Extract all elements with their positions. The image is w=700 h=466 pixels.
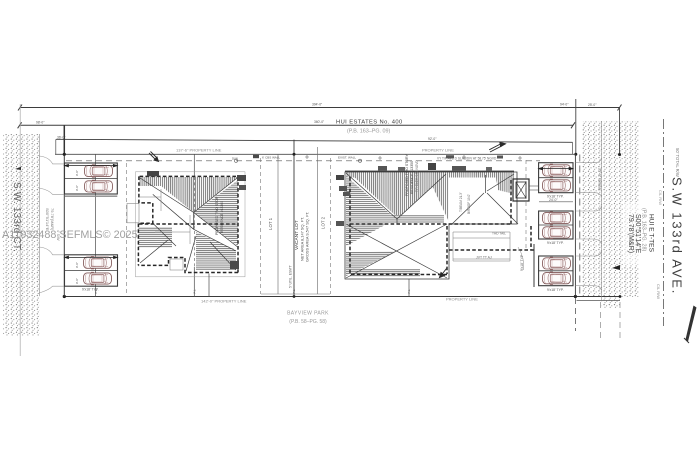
building 2 roof hatch west face upper [346, 176, 396, 246]
lot line extensions below plan [574, 298, 576, 331]
svg-text:EXIST. WALL: EXIST. WALL [338, 156, 356, 160]
south property line [64, 296, 575, 298]
svg-text:HUI ESTATES No. 400: HUI ESTATES No. 400 [336, 119, 403, 125]
setback dashed east of building 2 [525, 160, 527, 248]
svg-text:5' UTIL. ESM'T: 5' UTIL. ESM'T [289, 265, 293, 288]
street swale stipple right (S.W. 133rd AVE) [582, 121, 639, 297]
svg-text:98'-0": 98'-0" [36, 121, 45, 125]
building 2 roof hatch west face lower [346, 251, 397, 276]
dim extension vertical x=576 [575, 99, 577, 154]
building 1 hip diagonal SW [153, 223, 176, 246]
building 1 entry porch north [147, 171, 159, 177]
building 1 interior partition lines [139, 189, 190, 270]
svg-text:94'-0": 94'-0" [560, 103, 569, 107]
svg-text:360'-0": 360'-0" [314, 120, 325, 124]
parking group right 2: car 1 [543, 212, 571, 224]
parking group left top: stall dim arrow [65, 164, 118, 167]
parking group left top: stall box [65, 163, 118, 196]
building 1 equipment pads east [237, 175, 246, 181]
street west curb line (right street) [601, 121, 603, 300]
parking enclosure west wall right [533, 244, 535, 287]
building 2 hip diagonal NW [346, 173, 397, 219]
building 2 east gable hips [452, 193, 484, 224]
building 2 rear terrace lines [453, 232, 510, 261]
dimension line B [18, 122, 575, 128]
flow arrow near building 1 NW [149, 152, 159, 162]
svg-text:B/ROOF 19.0': B/ROOF 19.0' [467, 194, 471, 214]
building 2 dark label marks along top [378, 166, 387, 171]
building 1 unit split dashed [193, 177, 195, 272]
svg-text:P.L.: P.L. [407, 289, 411, 294]
svg-text:PROPERTY LINE: PROPERTY LINE [422, 148, 454, 153]
svg-text:D/W: D/W [232, 157, 238, 161]
middle strip bottom line [261, 293, 330, 295]
flow arrow near building 2 NE [489, 142, 505, 152]
apron curves left driveways [39, 156, 64, 164]
svg-text:36'-0": 36'-0" [57, 135, 66, 139]
north property boundary line [56, 139, 573, 142]
svg-text:79.78'(M&R): 79.78'(M&R) [627, 214, 634, 253]
building 1 roof hatch south-west face [138, 227, 172, 248]
svg-text:79.78'(M&R): 79.78'(M&R) [50, 208, 55, 231]
parking group right 1: car 1 [543, 164, 571, 176]
parking group right 3: car 2 [543, 272, 571, 284]
building 1 roof overhang outline [136, 172, 246, 277]
building 2 roof hatch band above south wall [350, 269, 420, 277]
svg-text:JVT TT AJ: JVT TT AJ [476, 256, 492, 260]
parking group left bottom: car 1 [84, 257, 112, 269]
building 1 hip diagonal NW [140, 178, 194, 213]
svg-text:P.L.: P.L. [94, 289, 98, 294]
leader pen arrow bottom right [686, 306, 697, 342]
dashed right-of-way line x=579.8 [579, 155, 581, 298]
svg-text:6' CBS WALL: 6' CBS WALL [262, 156, 280, 160]
overhead utility dashed line [66, 160, 540, 162]
svg-text:9'x18' TYP: 9'x18' TYP [520, 254, 524, 271]
building 1 hip diagonal E lower [194, 213, 237, 247]
building 2 hip diagonal NE [397, 174, 446, 219]
svg-text:S00°51'14"E: S00°51'14"E [45, 208, 50, 231]
svg-text:C/L R/W: C/L R/W [656, 284, 661, 299]
svg-text:F.F. ELEV. 9.50 NGVD: F.F. ELEV. 9.50 NGVD [415, 160, 419, 192]
svg-text:VY T/P AVE D SLAB/DIV AT 58.75: VY T/P AVE D SLAB/DIV AT 58.75' NGVD [437, 157, 497, 161]
svg-text:BAYVIEW PARK: BAYVIEW PARK [287, 311, 329, 317]
building 2 footprint bold dashed walls [350, 177, 534, 275]
svg-text:RESIDENCE #13350: RESIDENCE #13350 [410, 161, 414, 194]
svg-text:S00°51'14"E: S00°51'14"E [634, 214, 642, 254]
interior lot line x=95.6 [95, 154, 97, 296]
corner vertical NE [572, 142, 574, 154]
parking group left bottom: stall dim arrow [65, 256, 118, 259]
lot line between lot1 and lot2 x=294 [293, 140, 295, 297]
parking group right 1: car 2 [543, 179, 571, 191]
svg-text:RESIDENCE #13360: RESIDENCE #13360 [220, 201, 224, 233]
street swale stipple left (S.W. 133rd CT) [3, 134, 39, 336]
traffic arrow on left street [15, 167, 21, 170]
building 2 roof hatch top band [346, 172, 514, 178]
flow arrow building 2 SE corner [440, 269, 447, 278]
svg-text:C/L R/W: C/L R/W [658, 190, 663, 205]
svg-text:(P.B. 58–PG. 58): (P.B. 58–PG. 58) [289, 319, 327, 325]
building 1 dim tick to south property line [208, 274, 210, 297]
svg-text:A11932488 SEFMLS© 2025: A11932488 SEFMLS© 2025 [2, 229, 138, 241]
setback dashed east of building 1 [260, 158, 262, 294]
svg-text:(P.B. 163–PG. 09): (P.B. 163–PG. 09) [347, 128, 391, 134]
dim 24' between group 1 and 2 [539, 201, 573, 203]
parking group right 2: car 2 [543, 226, 571, 238]
svg-text:P.L.: P.L. [193, 289, 197, 294]
svg-text:9'x18' TYP.: 9'x18' TYP. [547, 241, 564, 245]
svg-text:LOT 1: LOT 1 [268, 217, 273, 230]
parking group right 1: dim arrow [539, 167, 573, 170]
svg-text:HUI E T-TES: HUI E T-TES [648, 214, 655, 253]
svg-text:9'x18' TYP.: 9'x18' TYP. [547, 288, 564, 292]
building 1 ridge point [193, 213, 195, 230]
east property line x=575.4 [574, 154, 576, 296]
stipple patch below right street [602, 297, 620, 308]
building 2 roof hatch NE wedge [428, 177, 449, 222]
building 2 entry tower [513, 179, 529, 201]
svg-text:9'-0": 9'-0" [75, 262, 79, 268]
building 1 hip diagonal NE [194, 178, 237, 213]
parking group right 1: stall box [539, 163, 573, 193]
building 2 roof hatch east band [496, 177, 514, 194]
svg-text:137'-6" PROPERTY LINE: 137'-6" PROPERTY LINE [176, 148, 222, 153]
svg-text:PROPOSED TWO STORY: PROPOSED TWO STORY [405, 154, 409, 196]
dimension line A (top) [18, 105, 622, 111]
svg-text:50' TOTAL R/W: 50' TOTAL R/W [675, 148, 680, 177]
building 2 roof hatch band above mid wall [353, 215, 444, 223]
svg-text:25'-0" SWALE: 25'-0" SWALE [598, 168, 602, 191]
svg-text:PROPOSED TWO STORY: PROPOSED TWO STORY [215, 194, 219, 235]
building 2 dark label marks west side [336, 175, 344, 180]
bearing text halo [623, 203, 654, 265]
north inner pavement line [55, 153, 575, 155]
svg-text:9'-0": 9'-0" [75, 170, 79, 176]
svg-text:394'-0": 394'-0" [312, 103, 323, 107]
building 1 roof hatch east face [194, 180, 238, 246]
svg-text:9'-0": 9'-0" [75, 278, 79, 284]
building 2 rear square X diagonals [346, 224, 447, 278]
parking group right 2: stall box [539, 211, 573, 239]
traffic arrow on right street [612, 265, 620, 270]
svg-text:GROSS AREA 9,547 SQ. FT.: GROSS AREA 9,547 SQ. FT. [305, 212, 310, 262]
building 1 roof hatch south face [196, 232, 236, 270]
building 1 roof hatch north face [140, 177, 238, 213]
svg-text:25'-0": 25'-0" [588, 103, 597, 107]
unit split line left building x=194.3 [193, 154, 195, 176]
leader line with stall note right of building 2 [518, 247, 524, 270]
middle strip line x=278 [277, 154, 279, 294]
building 1 dark pad SE [230, 261, 239, 269]
setback dashed west of building 1 [126, 163, 128, 294]
svg-text:9'-0": 9'-0" [75, 185, 79, 191]
svg-text:S.W 133rd AVE.: S.W 133rd AVE. [670, 177, 685, 295]
aprons right driveways [575, 158, 601, 291]
corner vertical NW [55, 139, 57, 154]
middle strip line x=317.7 [317, 147, 319, 294]
svg-text:T/BEAM 21.3': T/BEAM 21.3' [459, 192, 463, 212]
setback dashed west of building 2 [330, 158, 332, 294]
svg-text:PROPERTY LINE: PROPERTY LINE [446, 296, 478, 301]
sidewalk line below SE corner [577, 299, 621, 301]
parking group left bottom: stall box [65, 255, 118, 286]
walkway tower to stalls [529, 185, 538, 187]
building 1 valley diagonal [153, 194, 194, 229]
spot elevation crosses [305, 155, 522, 160]
svg-text:LOT 2: LOT 2 [321, 216, 326, 229]
svg-text:S.W. 133rd CT.: S.W. 133rd CT. [11, 182, 22, 252]
building 2 unit split line to south property line [408, 279, 410, 297]
west property line x=64.3 [63, 125, 65, 155]
building 1 footprint wall north [138, 176, 238, 272]
svg-text:THD TAIL: THD TAIL [492, 232, 506, 236]
building 1 west patio slab [127, 204, 139, 223]
parking group left bottom: car 2 [84, 272, 112, 284]
building 2 roof outline [345, 172, 517, 279]
svg-text:24'-0": 24'-0" [549, 198, 558, 202]
svg-text:142'-0" PROPERTY LINE: 142'-0" PROPERTY LINE [201, 298, 247, 303]
svg-text:92'-0": 92'-0" [428, 137, 437, 141]
building 1 hip diagonal S [186, 236, 196, 271]
street centerline dash-dot right [662, 119, 664, 326]
building 2 ridge drop [396, 219, 398, 224]
parking group left top: car 2 [85, 180, 113, 192]
dim extension vertical x=619.5 [619, 108, 621, 155]
svg-text:P.L.: P.L. [292, 289, 296, 294]
parking group right 3: stall box [539, 256, 573, 286]
parking group left top: car 1 [85, 165, 113, 177]
dim extension line far left [19, 104, 21, 356]
parking group right 3: car 1 [543, 257, 571, 269]
building 2 roof hatch north face triangle [353, 176, 445, 218]
street east curb line (left street) [38, 134, 40, 296]
